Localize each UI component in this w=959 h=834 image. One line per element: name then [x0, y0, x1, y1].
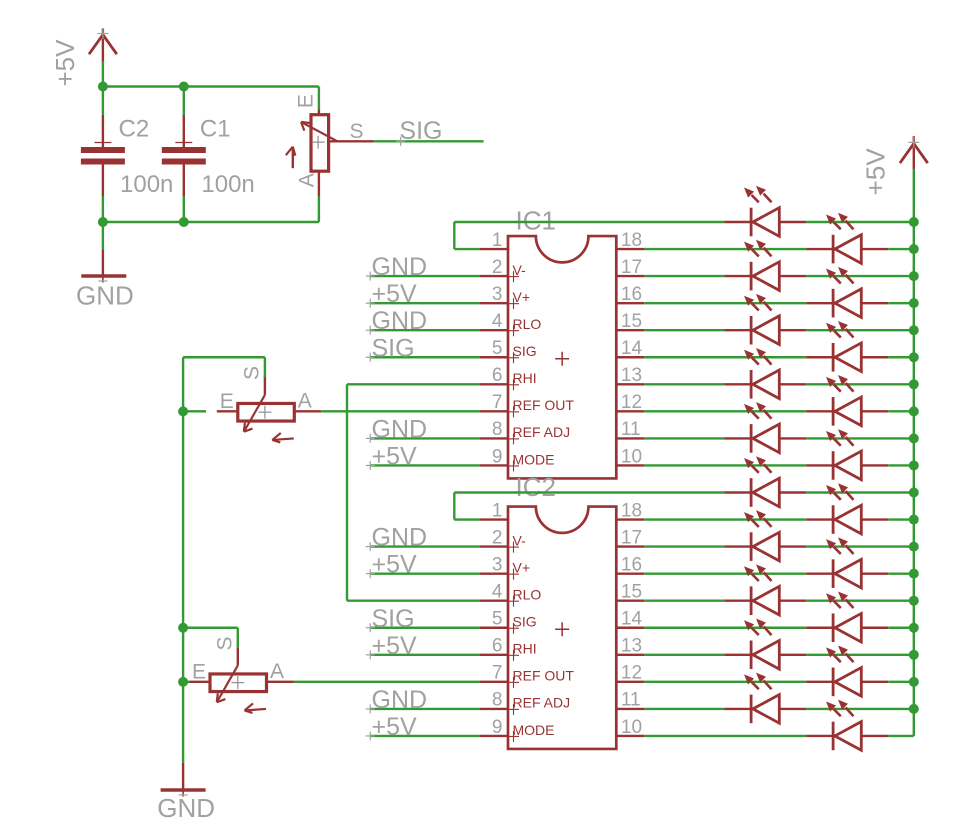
supply +5V symbol (right) — [861, 136, 928, 195]
svg-text:MODE: MODE — [513, 451, 555, 467]
svg-text:14: 14 — [621, 338, 643, 359]
IC IC2 pin 11 — [616, 690, 644, 711]
svg-text:+5V: +5V — [372, 551, 418, 579]
ground GND symbol (top left) — [76, 222, 134, 311]
junction trimmer3 E — [178, 677, 188, 687]
IC IC1 pin 12 — [616, 392, 644, 413]
wire LED row 2 to +5V rail — [806, 275, 914, 277]
LED row 16 (left column) — [724, 619, 806, 670]
IC IC1 pin 11 — [616, 419, 644, 440]
LED row 12 (left column) — [724, 510, 806, 561]
svg-text:SIG: SIG — [399, 117, 442, 145]
svg-text:11: 11 — [621, 419, 641, 440]
IC IC2 pin 6 (RHI) — [480, 636, 537, 661]
LED row 4 (left column) — [724, 294, 806, 345]
IC IC1 pin 14 — [616, 338, 644, 359]
wire LED row 16 to +5V rail — [806, 654, 914, 656]
wire IC pin to LED row 5 — [644, 356, 806, 358]
svg-text:12: 12 — [621, 663, 642, 684]
LED row 5 (right column) — [806, 321, 888, 372]
trimmer potentiometer (horizontal, bottom) — [189, 636, 294, 713]
IC IC2 pin 8 (REF ADJ) — [480, 690, 570, 715]
IC IC1 pin 18 — [616, 230, 644, 251]
LED row 3 (right column) — [806, 267, 888, 318]
net +5V wire to IC2 pin3 — [366, 551, 480, 579]
svg-text:16: 16 — [621, 284, 642, 305]
svg-text:RHI: RHI — [513, 370, 537, 386]
wire LED row 11 to +5V rail — [888, 518, 914, 520]
LED row 8 (left column) — [724, 402, 806, 453]
wire IC2 pin1 wrap to LED row 10 — [454, 493, 724, 520]
svg-text:+5V: +5V — [372, 280, 418, 308]
wire LED row 4 to +5V rail — [806, 329, 914, 331]
wire IC1 pin1 wrap to LED row 0 — [454, 222, 724, 249]
junction +5V rail row 17 — [909, 677, 919, 687]
svg-text:100n: 100n — [201, 171, 254, 198]
svg-text:E: E — [295, 94, 318, 108]
svg-text:GND: GND — [372, 253, 428, 281]
wire gnd rail vertical — [182, 357, 184, 762]
wire LED row 13 to +5V rail — [888, 572, 914, 574]
LED row 7 (right column) — [806, 375, 888, 426]
svg-text:6: 6 — [492, 365, 503, 386]
svg-text:+5V: +5V — [372, 632, 418, 660]
wire +5V to node — [102, 61, 104, 87]
junction +5V rail row 18 — [909, 704, 919, 714]
svg-text:1: 1 — [492, 230, 503, 251]
junction trimmer3 S — [178, 623, 188, 633]
svg-text:S: S — [214, 636, 237, 650]
svg-text:3: 3 — [492, 554, 503, 575]
wire IC pin to LED row 2 — [644, 275, 724, 277]
svg-text:4: 4 — [492, 311, 503, 332]
svg-text:A: A — [298, 389, 312, 412]
wire LED row 12 to +5V rail — [806, 545, 914, 547]
wire IC pin to LED row 14 — [644, 600, 724, 602]
svg-text:11: 11 — [621, 690, 641, 711]
IC IC2 pin 12 — [616, 663, 644, 684]
wire +5V rail (right) — [913, 169, 915, 736]
svg-text:+5V: +5V — [372, 442, 418, 470]
junction +5V rail row 0 — [909, 217, 919, 227]
net SIG wire to IC1 pin5 — [366, 334, 480, 362]
IC IC2 pin 7 (REF OUT) — [480, 663, 574, 688]
svg-text:GND: GND — [157, 793, 215, 823]
wire LED row 9 to +5V rail — [888, 464, 914, 466]
LED row 9 (right column) — [806, 429, 888, 480]
svg-text:REF OUT: REF OUT — [513, 397, 575, 413]
junction +5V rail row 7 — [909, 406, 919, 416]
LED row 10 (left column) — [724, 456, 806, 507]
svg-text:10: 10 — [621, 446, 642, 467]
wire IC pin to LED row 17 — [644, 681, 806, 683]
svg-text:+5V: +5V — [861, 148, 891, 196]
svg-text:GND: GND — [372, 415, 428, 443]
svg-text:2: 2 — [492, 257, 503, 278]
junction +5V rail row 6 — [909, 379, 919, 389]
IC IC2 pin 9 (MODE) — [480, 717, 555, 742]
wire LED row 0 to +5V rail — [806, 221, 914, 223]
net GND wire to IC2 pin2 — [366, 524, 480, 552]
wire LED row 15 to +5V rail — [888, 627, 914, 629]
svg-text:100n: 100n — [120, 171, 173, 198]
wire LED row 7 to +5V rail — [888, 410, 914, 412]
svg-text:IC2: IC2 — [516, 472, 556, 502]
svg-text:3: 3 — [492, 284, 503, 305]
junction +5V rail row 13 — [909, 569, 919, 579]
wire IC pin to LED row 6 — [644, 383, 724, 385]
svg-text:C2: C2 — [119, 116, 150, 143]
ground GND symbol (bottom) — [157, 763, 215, 823]
svg-text:A: A — [270, 660, 284, 683]
junction C2 bottom — [98, 217, 108, 227]
wire IC pin to LED row 3 — [644, 302, 806, 304]
net GND wire to IC1 pin2 — [366, 253, 480, 281]
wire IC pin to LED row 15 — [644, 627, 806, 629]
wire trimmer2 E stub — [183, 410, 206, 412]
IC IC2 pin 3 (V+) — [480, 554, 530, 579]
LED row 1 (right column) — [806, 213, 888, 264]
svg-text:9: 9 — [492, 717, 503, 738]
svg-text:7: 7 — [492, 663, 503, 684]
wire trimmer2 A to IC1 REF OUT — [321, 410, 480, 412]
LED row 2 (left column) — [724, 240, 806, 291]
wire IC pin to LED row 13 — [644, 572, 806, 574]
junction +5V rail row 5 — [909, 352, 919, 362]
wire trimmer3 E stub — [183, 681, 189, 683]
net label SIG (top) — [396, 117, 442, 146]
junction +5V rail row 9 — [909, 460, 919, 470]
IC IC1 pin 10 — [616, 446, 644, 467]
svg-text:REF ADJ: REF ADJ — [513, 424, 571, 440]
IC IC1 pin 15 — [616, 311, 644, 332]
svg-text:18: 18 — [621, 500, 642, 521]
junction +5V rail row 10 — [909, 488, 919, 498]
svg-text:15: 15 — [621, 311, 642, 332]
trimmer potentiometer (horizontal, middle) — [217, 366, 321, 443]
svg-text:8: 8 — [492, 419, 503, 440]
net +5V wire to IC1 pin3 — [366, 280, 480, 308]
wire IC pin to LED row 1 — [644, 248, 806, 250]
svg-text:E: E — [192, 660, 206, 683]
LED row 13 (right column) — [806, 537, 888, 588]
IC IC1 pin 4 (RLO) — [480, 311, 541, 336]
wire trimmer3 S horizontal — [183, 627, 238, 629]
svg-text:A: A — [295, 173, 318, 187]
wire IC pin to LED row 19 — [644, 735, 806, 737]
svg-text:V-: V- — [513, 262, 527, 278]
net +5V wire to IC2 pin6 — [366, 632, 480, 660]
svg-text:REF OUT: REF OUT — [513, 668, 575, 684]
svg-text:S: S — [350, 120, 364, 143]
svg-text:SIG: SIG — [513, 343, 537, 359]
svg-text:17: 17 — [621, 527, 642, 548]
junction C1 top — [179, 82, 189, 92]
IC IC1 pin 16 — [616, 284, 644, 305]
LED row 6 (left column) — [724, 348, 806, 399]
svg-text:C1: C1 — [200, 116, 231, 143]
IC IC1 pin 6 (RHI) — [480, 365, 537, 390]
op-amp/IC IC1 body — [508, 205, 616, 478]
svg-text:IC1: IC1 — [516, 205, 556, 235]
junction +5V rail row 2 — [909, 271, 919, 281]
svg-text:+5V: +5V — [372, 713, 418, 741]
IC IC1 pin 8 (REF ADJ) — [480, 419, 570, 444]
LED row 18 (left column) — [724, 673, 806, 724]
LED row 14 (left column) — [724, 564, 806, 615]
svg-text:9: 9 — [492, 446, 503, 467]
IC IC2 pin 15 — [616, 582, 644, 603]
svg-text:4: 4 — [492, 582, 503, 603]
svg-text:SIG: SIG — [372, 334, 415, 362]
wire LED row 18 to +5V rail — [806, 708, 914, 710]
IC IC1 pin 5 (SIG) — [480, 338, 537, 363]
junction +5V rail row 11 — [909, 515, 919, 525]
wire LED row 1 to +5V rail — [888, 248, 914, 250]
junction +5V rail row 8 — [909, 433, 919, 443]
IC IC2 pin 16 — [616, 554, 644, 575]
svg-text:V-: V- — [513, 532, 527, 548]
wire IC pin to LED row 11 — [644, 518, 806, 520]
capacitor C1 — [162, 87, 255, 223]
IC IC1 pin 1 — [480, 230, 508, 251]
net SIG wire to IC2 pin5 — [366, 605, 480, 633]
IC IC2 pin 5 (SIG) — [480, 609, 537, 634]
wire trimmer3 S drop — [237, 628, 239, 648]
svg-text:GND: GND — [372, 524, 428, 552]
junction C1 bottom — [179, 217, 189, 227]
junction +5V rail row 14 — [909, 596, 919, 606]
junction +5V rail row 4 — [909, 325, 919, 335]
wire IC pin to LED row 8 — [644, 437, 724, 439]
svg-text:RHI: RHI — [513, 641, 537, 657]
IC IC1 pin 9 (MODE) — [480, 446, 555, 471]
svg-text:MODE: MODE — [513, 722, 555, 738]
svg-text:GND: GND — [372, 686, 428, 714]
wire IC pin to LED row 16 — [644, 654, 724, 656]
svg-text:7: 7 — [492, 392, 503, 413]
wire bottom rail caps to trimmer — [103, 221, 319, 223]
LED row 17 (right column) — [806, 646, 888, 697]
wire LED row 14 to +5V rail — [806, 600, 914, 602]
svg-text:V+: V+ — [513, 559, 531, 575]
net +5V wire to IC1 pin9 — [366, 442, 480, 470]
junction trimmer2 E — [178, 406, 188, 416]
LED row 19 (right column) — [806, 700, 888, 751]
wire IC pin to LED row 18 — [644, 708, 724, 710]
wire IC pin to LED row 9 — [644, 464, 806, 466]
IC IC2 pin 1 — [480, 500, 508, 521]
svg-text:V+: V+ — [513, 289, 531, 305]
junction +5V rail row 12 — [909, 542, 919, 552]
IC IC2 pin 10 — [616, 717, 644, 738]
IC IC2 pin 4 (RLO) — [480, 582, 541, 607]
svg-text:13: 13 — [621, 636, 642, 657]
wire SIG from trimmer wiper — [374, 140, 484, 142]
wire top rail to trimmer — [103, 87, 319, 110]
svg-text:E: E — [220, 390, 234, 413]
IC IC1 pin 2 (V-) — [480, 257, 526, 282]
wire IC pin to LED row 12 — [644, 545, 724, 547]
IC IC1 pin 17 — [616, 257, 644, 278]
svg-text:SIG: SIG — [372, 605, 415, 633]
wire LED row 3 to +5V rail — [888, 302, 914, 304]
junction +5V rail row 3 — [909, 298, 919, 308]
wire LED row 19 to +5V rail — [888, 735, 914, 737]
wire trimmer2 S drop — [264, 357, 266, 377]
supply +5V symbol (top left) — [50, 28, 117, 87]
svg-text:5: 5 — [492, 609, 503, 630]
svg-text:SIG: SIG — [513, 614, 537, 630]
IC IC2 pin 2 (V-) — [480, 527, 526, 552]
IC IC2 pin 17 — [616, 527, 644, 548]
wire trimmer3 A to IC2 REF OUT — [294, 681, 481, 683]
svg-text:14: 14 — [621, 609, 643, 630]
trimmer potentiometer (vertical, top) — [286, 94, 374, 222]
wire LED row 5 to +5V rail — [888, 356, 914, 358]
svg-text:8: 8 — [492, 690, 503, 711]
wire IC1 RHI to IC2 RLO — [347, 384, 480, 600]
wire LED row 10 to +5V rail — [806, 491, 914, 493]
IC IC2 pin 18 — [616, 500, 644, 521]
wire IC pin to LED row 4 — [644, 329, 724, 331]
svg-text:GND: GND — [76, 281, 134, 311]
svg-text:GND: GND — [372, 307, 428, 335]
svg-text:5: 5 — [492, 338, 503, 359]
svg-text:13: 13 — [621, 365, 642, 386]
junction +5V rail row 15 — [909, 623, 919, 633]
svg-text:16: 16 — [621, 554, 642, 575]
net +5V wire to IC2 pin9 — [366, 713, 480, 741]
svg-text:18: 18 — [621, 230, 642, 251]
IC IC1 pin 3 (V+) — [480, 284, 530, 309]
svg-text:6: 6 — [492, 636, 503, 657]
net GND wire to IC2 pin8 — [366, 686, 480, 714]
LED row 0 (left column) — [724, 186, 806, 237]
svg-text:2: 2 — [492, 527, 503, 548]
IC IC2 pin 13 — [616, 636, 644, 657]
svg-text:12: 12 — [621, 392, 642, 413]
net GND wire to IC1 pin8 — [366, 415, 480, 443]
wire IC pin to LED row 7 — [644, 410, 806, 412]
net GND wire to IC1 pin4 — [366, 307, 480, 335]
junction +5V rail row 1 — [909, 244, 919, 254]
junction node V+ top-left — [98, 82, 108, 92]
svg-text:10: 10 — [621, 717, 642, 738]
capacitor C2 — [81, 87, 173, 223]
wire LED row 8 to +5V rail — [806, 437, 914, 439]
svg-text:S: S — [241, 366, 264, 380]
svg-text:RLO: RLO — [513, 316, 542, 332]
wire gnd rail horizontal (to trimmer 2 wiper) — [183, 356, 265, 358]
wire LED row 6 to +5V rail — [806, 383, 914, 385]
svg-text:REF ADJ: REF ADJ — [513, 695, 571, 711]
svg-text:RLO: RLO — [513, 587, 542, 603]
IC IC2 pin 14 — [616, 609, 644, 630]
svg-text:+5V: +5V — [50, 39, 80, 87]
op-amp/IC IC2 body — [508, 472, 616, 749]
IC IC1 pin 7 (REF OUT) — [480, 392, 574, 417]
IC IC1 pin 13 — [616, 365, 644, 386]
wire LED row 17 to +5V rail — [888, 681, 914, 683]
LED row 15 (right column) — [806, 591, 888, 642]
LED row 11 (right column) — [806, 483, 888, 534]
svg-text:17: 17 — [621, 257, 642, 278]
junction +5V rail row 16 — [909, 650, 919, 660]
svg-text:15: 15 — [621, 582, 642, 603]
svg-text:1: 1 — [492, 500, 503, 521]
